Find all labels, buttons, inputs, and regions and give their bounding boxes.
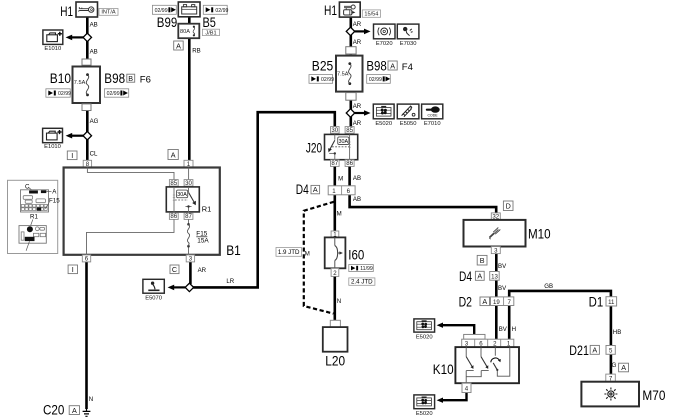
marker after 02/99 (B99 left) (152, 5, 176, 14)
label boxed D (503, 201, 513, 211)
svg-text:D: D (506, 202, 511, 211)
fuse B25 connector top (346, 47, 356, 54)
svg-text:E5050: E5050 (400, 121, 417, 127)
svg-text:02/99: 02/99 (215, 8, 228, 14)
svg-text:H: H (512, 326, 516, 333)
users E5050 (diagnostic socket) (397, 104, 419, 127)
fuse B10/B98 connector top (82, 59, 91, 65)
svg-text:E1010: E1010 (44, 46, 61, 52)
wire label AR (second) (353, 39, 362, 46)
fuse B10/B98 7.5A (F6) (50, 67, 125, 104)
label boxed B (127, 74, 135, 83)
svg-text:CODE: CODE (428, 114, 439, 118)
fuse F15 15A (R1 pin 87 to B1 pin 3) (187, 219, 209, 255)
svg-text:02/99: 02/99 (369, 77, 382, 83)
B1 pin 3 cell (186, 255, 194, 263)
svg-text:B: B (128, 74, 133, 83)
B1 pin 6 cell (82, 255, 90, 263)
svg-text:H1: H1 (60, 4, 73, 19)
svg-text:E1010: E1010 (44, 144, 61, 150)
wire label HB (613, 329, 621, 336)
wire label BV (second) (498, 285, 507, 292)
users E5020 (check control ECU) (373, 104, 394, 127)
wire BV D2 pin 19 to K10 pin 2 (495, 305, 498, 339)
svg-text:D4: D4 (296, 182, 309, 197)
svg-text:D21: D21 (569, 343, 589, 358)
label INT/A (99, 9, 118, 16)
label F4 (402, 62, 413, 73)
wire label H (512, 326, 516, 333)
wire label GB (544, 283, 553, 290)
svg-text:B98: B98 (366, 59, 386, 74)
svg-text:E7020: E7020 (376, 41, 393, 47)
wire K10 pins 3/6 bridge to E5020 arrow (437, 323, 475, 335)
svg-text:E5020: E5020 (416, 411, 433, 417)
earth point E1010 upper (battery +) (43, 30, 63, 52)
svg-text:02/99: 02/99 (155, 8, 168, 14)
svg-text:AR: AR (353, 120, 362, 127)
svg-text:A: A (313, 185, 318, 194)
svg-text:15A: 15A (197, 238, 209, 245)
svg-text:7.5A: 7.5A (337, 72, 349, 78)
wire M J20 pin 87 to D4 pin 1 (333, 166, 336, 186)
svg-text:BV: BV (498, 263, 507, 270)
svg-text:02/99: 02/99 (321, 77, 334, 83)
label boxed A (above B1 pin 1) (168, 150, 178, 160)
label boxed I (below B1 pin 6) (68, 265, 77, 274)
svg-text:D4: D4 (459, 269, 472, 284)
label 1.9 JTD (276, 248, 302, 257)
svg-text:M10: M10 (528, 226, 551, 241)
label boxed I (above B1 pin 8) (67, 151, 77, 160)
svg-text:M: M (305, 250, 310, 257)
svg-text:E5020: E5020 (416, 334, 433, 340)
svg-text:02/99: 02/99 (58, 91, 71, 97)
svg-text:B1: B1 (226, 243, 241, 258)
marker before 02/99 (B5 right) (203, 5, 228, 14)
svg-text:30A: 30A (339, 139, 349, 145)
fan motor M70 (581, 374, 665, 406)
svg-text:F6: F6 (140, 75, 151, 86)
fuse B5 80A (J/B1) (178, 24, 199, 39)
svg-text:D2: D2 (459, 294, 472, 309)
wire label CL (90, 150, 98, 157)
svg-text:AG: AG (90, 118, 99, 125)
svg-text:I: I (71, 151, 73, 160)
wire label N (C20) (89, 396, 93, 403)
wire GB D2 pin 7 to D1 pin 11 (509, 291, 611, 297)
svg-text:H1: H1 (324, 3, 337, 18)
svg-text:7.5A: 7.5A (74, 80, 86, 86)
svg-text:E7030: E7030 (400, 41, 417, 47)
svg-text:11/99: 11/99 (360, 266, 373, 272)
wire label AR (fourth) (353, 120, 362, 127)
arrow to E1010 upper (66, 35, 84, 41)
svg-text:LR: LR (226, 278, 234, 285)
wire B1 pin 1 to R1 pin 30 (188, 168, 190, 180)
connector D1 pin 11 (589, 294, 617, 309)
svg-text:87: 87 (331, 160, 338, 167)
wire label BV (third) (499, 326, 508, 333)
relay R1 (in B1) (166, 180, 211, 221)
svg-text:A: A (482, 297, 487, 306)
svg-text:85: 85 (346, 127, 353, 134)
ECU / junction unit B1 (64, 160, 241, 257)
svg-text:CL: CL (90, 150, 98, 157)
wire CL junction to B1 pin 8 (86, 139, 89, 161)
svg-text:85: 85 (170, 180, 177, 187)
svg-text:02/99: 02/99 (107, 91, 120, 97)
svg-text:30A: 30A (177, 192, 187, 198)
svg-text:87: 87 (185, 213, 192, 220)
engine coolant temperature switch I60 (325, 231, 365, 277)
svg-text:HB: HB (613, 329, 621, 336)
svg-text:7: 7 (508, 299, 512, 306)
wire R1 pin 86 to B1 pin 6 (87, 219, 175, 255)
earth point E1010 lower (battery +) (43, 128, 63, 150)
label F6 (140, 75, 151, 86)
arrow to E7020/E7030 (355, 29, 371, 35)
svg-text:I: I (72, 265, 74, 274)
svg-text:AR: AR (353, 21, 362, 28)
svg-text:M70: M70 (642, 388, 665, 403)
wire N I60 pin 2 to L20 (333, 276, 336, 321)
svg-text:GB: GB (544, 283, 553, 290)
label boxed B (477, 255, 487, 265)
wire M D4 pin 1 to I60 pin 1 (333, 195, 336, 232)
wire label N (337, 298, 341, 305)
svg-text:E5020: E5020 (375, 121, 392, 127)
wire AG fuse B10 to junction (86, 110, 89, 132)
earth point E5070 (gear lever) (143, 279, 164, 301)
fuse B10/B98 connector bottom (82, 104, 91, 111)
arrow to E5070 (168, 285, 186, 291)
wire AR from B1 pin 3 to junction (189, 262, 192, 285)
svg-text:F15: F15 (196, 231, 207, 238)
svg-text:B98: B98 (104, 71, 125, 86)
wire label AB (second) (90, 49, 98, 56)
node junction diamond AR (H1 right) (346, 27, 354, 35)
connector D2 pins 19/7 (459, 294, 514, 309)
svg-text:A: A (621, 363, 626, 372)
label boxed A (M70) (619, 363, 629, 372)
label boxed C (below B1 pin 3) (170, 265, 179, 274)
wire AB J20 pin 86 to D4 pin 6 (348, 166, 351, 186)
svg-text:30: 30 (185, 180, 192, 187)
svg-text:A: A (72, 406, 77, 415)
svg-text:J/B1: J/B1 (205, 30, 216, 36)
wire HB D1 pin 11 to D21 pin 5 (610, 306, 613, 346)
glow plug timer switch K10 (433, 334, 519, 392)
svg-text:C: C (172, 265, 177, 274)
svg-text:86: 86 (170, 213, 177, 220)
wire label AR (353, 21, 362, 28)
svg-text:B5: B5 (203, 15, 216, 30)
svg-text:B99: B99 (157, 15, 177, 30)
node junction diamond AR (below B25) (346, 109, 354, 117)
svg-text:2: 2 (333, 270, 337, 277)
wire H D2 pin 7 to K10 pin 1 (508, 305, 511, 339)
svg-text:2.4 JTD: 2.4 JTD (351, 279, 373, 286)
svg-text:AR: AR (198, 267, 207, 274)
svg-text:5: 5 (609, 348, 613, 355)
svg-text:A: A (477, 272, 482, 281)
ignition switch H1 (15/54) (324, 2, 360, 18)
marker after 02/99 (B10 right) (104, 89, 128, 97)
svg-text:80A: 80A (180, 29, 190, 35)
wire K10 pin 4 to E5020 arrow (437, 392, 467, 403)
fuse B25/B98 7.5A (F4) (312, 56, 387, 92)
svg-text:A: A (390, 61, 395, 70)
glow plugs L20 (323, 320, 348, 368)
svg-text:R1: R1 (202, 205, 211, 214)
svg-text:A: A (171, 150, 176, 159)
svg-text:AR: AR (353, 39, 362, 46)
wire N from B1 pin 6 to ground C20 (85, 262, 88, 410)
node junction diamond AB (H1 branch) (83, 33, 91, 41)
svg-text:R1: R1 (30, 213, 38, 220)
svg-text:A: A (592, 346, 597, 355)
svg-text:B: B (480, 256, 485, 265)
marker before 02/99 (B25 left) (309, 75, 334, 84)
svg-text:K10: K10 (433, 362, 454, 377)
svg-text:G: G (612, 362, 617, 369)
svg-text:3: 3 (189, 256, 193, 263)
svg-text:F4: F4 (402, 62, 413, 73)
svg-text:RB: RB (192, 47, 200, 54)
svg-text:BV: BV (499, 326, 508, 333)
users E7010 (CODE key) (422, 104, 443, 127)
wire RB from B5 fuse to B1 pin 1 (188, 16, 191, 162)
label boxed A (B25) (388, 61, 397, 70)
label J/B1 (202, 29, 219, 36)
label boxed A (below B5) (174, 41, 184, 50)
arrow to E1010 lower (66, 133, 84, 139)
wire AR from H1 right to B25 and J20 pin 85 (349, 17, 352, 128)
battery B99/B5 (157, 2, 216, 30)
svg-text:E7010: E7010 (424, 121, 441, 127)
dashed wire M 1.9 JTD bypass (304, 202, 334, 314)
svg-text:86: 86 (346, 160, 353, 167)
svg-text:D1: D1 (589, 294, 604, 309)
wire BV M10 pin 3 to D4 pin 13 (495, 254, 498, 272)
svg-text:M: M (337, 211, 342, 218)
connector D4 pins 1/6 (296, 182, 355, 197)
wire AB D4 pin 6 to M10 pin 32 (350, 195, 497, 214)
wire label AB (90, 21, 98, 28)
wire label AB (353, 175, 361, 182)
svg-text:AB: AB (353, 196, 361, 203)
wire label BV (498, 263, 507, 270)
svg-text:AB: AB (90, 21, 98, 28)
arrow to E5020/E5050/E7010 (355, 110, 371, 116)
svg-text:E5070: E5070 (145, 295, 162, 301)
svg-text:J20: J20 (306, 140, 322, 155)
svg-text:N: N (89, 396, 93, 403)
wire label AG (90, 118, 99, 125)
svg-text:BV: BV (498, 285, 507, 292)
wire label M (below D4 pin 1) (337, 211, 342, 218)
svg-text:1.9 JTD: 1.9 JTD (278, 249, 300, 256)
svg-text:A: A (176, 41, 181, 50)
marker before 02/99 (B10 left) (46, 89, 71, 97)
marker after 02/99 (B25 right) (367, 75, 391, 84)
connector D4 pin 13 (459, 269, 499, 284)
svg-text:AR: AR (353, 103, 362, 110)
wire AB from H1 to fuse B10 (86, 17, 89, 61)
svg-text:INT/A: INT/A (101, 10, 116, 16)
wire label LR (226, 278, 234, 285)
label 2.4 JTD (349, 278, 375, 286)
label 15/54 (362, 10, 380, 18)
marker before 11/99 (I60) (349, 265, 374, 272)
svg-text:C20: C20 (43, 403, 64, 418)
svg-text:M: M (338, 176, 343, 183)
svg-text:19: 19 (493, 299, 500, 306)
wire label AR (B1 pin 3) (198, 267, 207, 274)
ground C20 (43, 403, 90, 418)
wire BV D4 pin 13 to D2 pin 19 (495, 280, 498, 297)
svg-text:30: 30 (331, 127, 338, 134)
svg-text:B10: B10 (50, 71, 71, 86)
svg-text:N: N (337, 298, 341, 305)
wire LR from junction to J20 pin 30 (193, 112, 335, 287)
users E7020 (instrument cluster) (374, 24, 396, 47)
relay J20 (306, 127, 358, 168)
wire label AR (third) (353, 103, 362, 110)
users E5020 (upper, at K10) (414, 319, 435, 340)
wire G D21 pin 5 to M70 pin 7 (610, 354, 613, 374)
wire label M (338, 176, 343, 183)
svg-text:I60: I60 (348, 248, 364, 263)
svg-text:13: 13 (491, 274, 498, 281)
wire B1 pin 8 to R1 pin 85 (87, 168, 174, 180)
svg-text:F15: F15 (49, 198, 60, 205)
svg-text:L20: L20 (325, 354, 345, 369)
component location inset (fusebox/relay plate) (8, 180, 61, 253)
node junction diamond AR/LR (below B1) (185, 283, 193, 291)
svg-text:11: 11 (608, 299, 615, 306)
wire label AB (below D4 pin 6) (353, 196, 361, 203)
wire label RB (192, 47, 200, 54)
glow plug control unit M10 (464, 213, 551, 254)
svg-text:15/54: 15/54 (364, 12, 378, 18)
users E7030 (397, 24, 419, 47)
fuse B25 connector bottom (346, 93, 356, 101)
wire label G (612, 362, 617, 369)
users E5020 (lower, at K10 pin 4) (414, 395, 435, 417)
svg-text:AB: AB (90, 49, 98, 56)
ignition switch H1 (INT/A) (60, 2, 97, 19)
node junction diamond AG/CL (83, 131, 91, 139)
svg-text:AB: AB (353, 175, 361, 182)
svg-text:B25: B25 (312, 59, 333, 74)
wire label M (dashed branch) (305, 250, 310, 257)
connector D21 pin 5 (569, 343, 615, 358)
